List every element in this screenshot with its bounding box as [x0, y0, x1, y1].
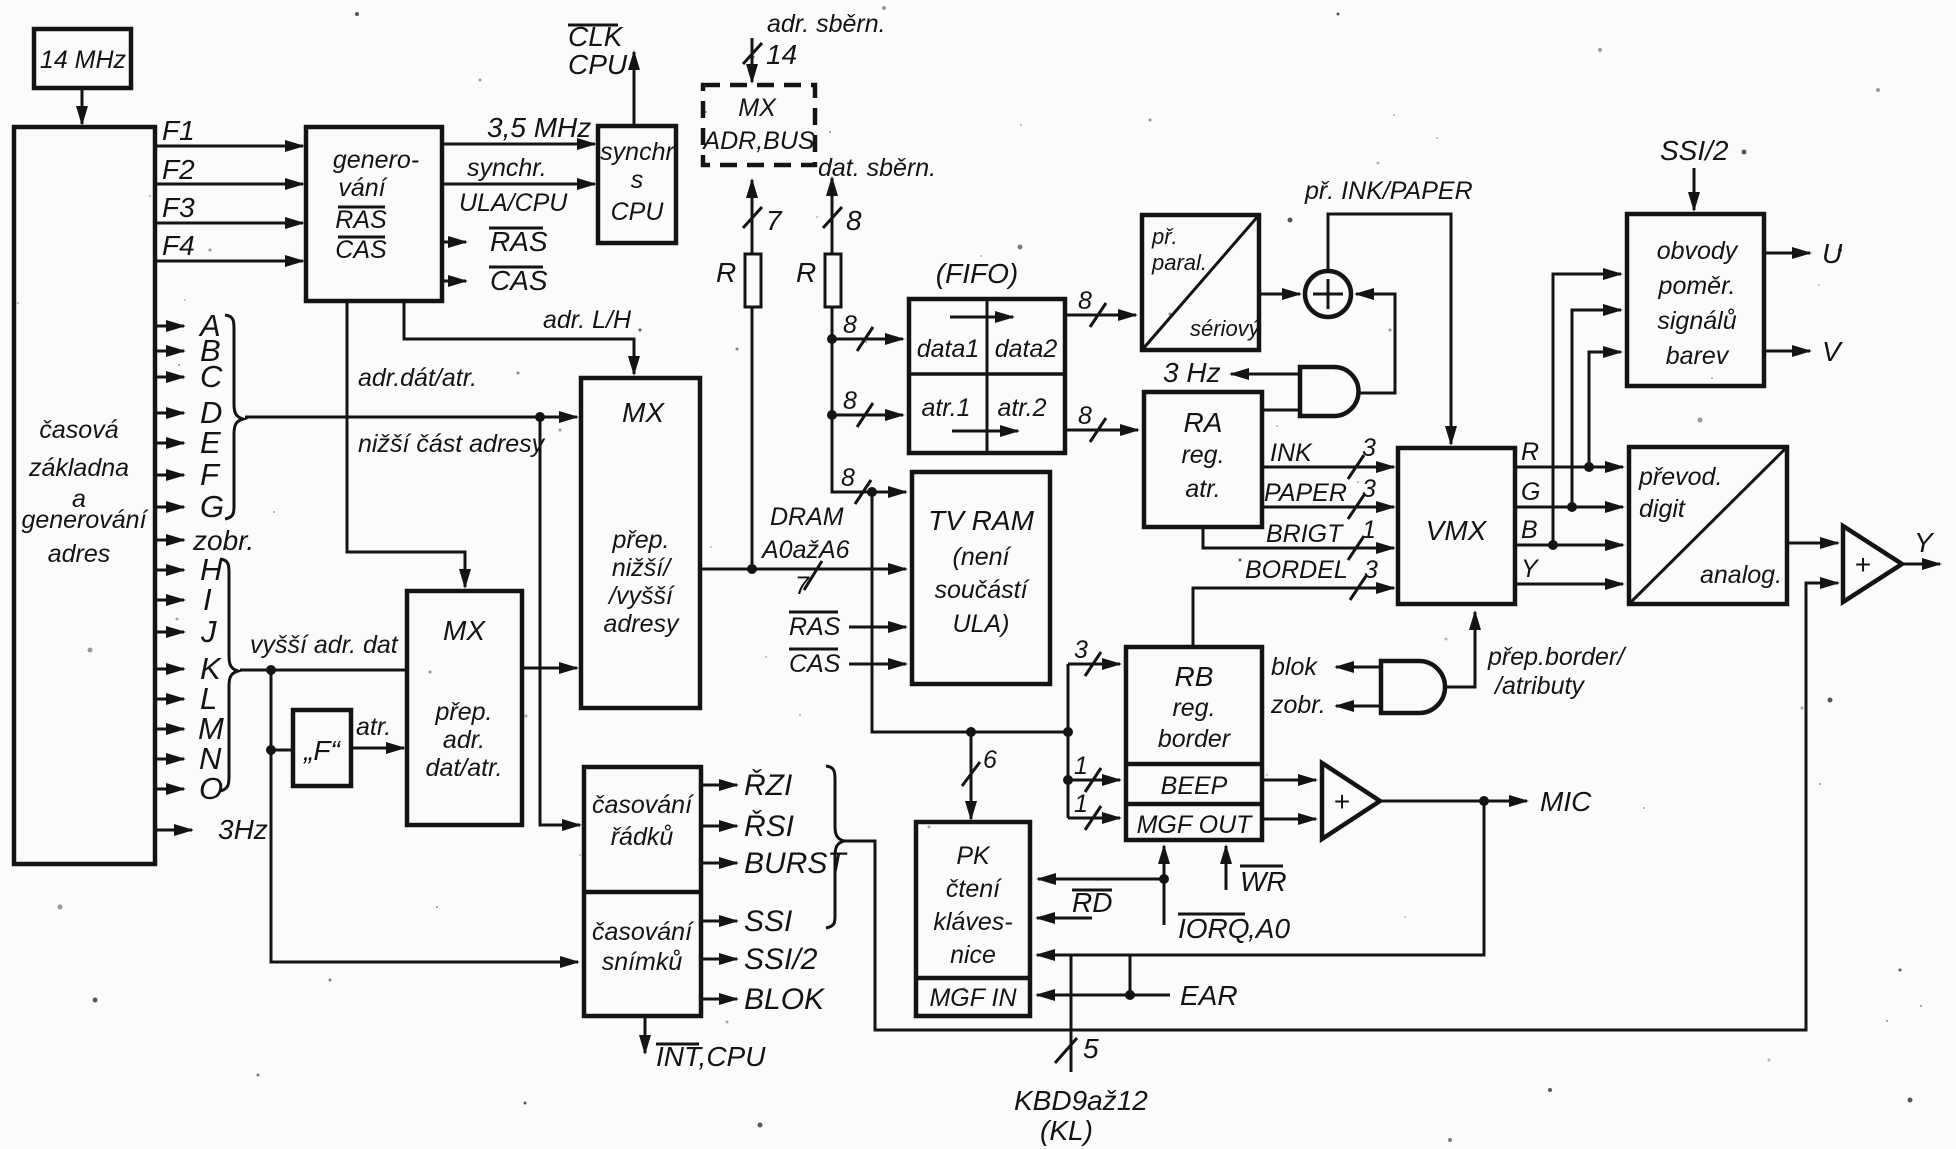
svg-text:3 Hz: 3 Hz — [1163, 357, 1221, 388]
gate G2 border/zobr — [1381, 661, 1445, 713]
svg-text:synchr.: synchr. — [467, 154, 547, 182]
svg-text:MIC: MIC — [1540, 786, 1592, 817]
block U10 TV RAM — [912, 472, 1050, 684]
svg-text:14: 14 — [766, 39, 797, 70]
wire CLK CPU — [568, 21, 634, 126]
output V — [1764, 336, 1843, 367]
wire INT CPU — [645, 1016, 766, 1072]
svg-text:adr.: adr. — [443, 726, 485, 754]
svg-text:O: O — [199, 771, 223, 806]
node dat branch data1 — [827, 334, 837, 344]
block U7 casovani radku / snimku — [584, 767, 701, 1016]
svg-text:3: 3 — [1364, 556, 1378, 584]
svg-text:přep.border/: přep.border/ — [1487, 643, 1627, 671]
wire gate to VMX prep border/atributy — [1445, 612, 1627, 700]
svg-text:G: G — [200, 489, 224, 524]
svg-text:poměr.: poměr. — [1658, 272, 1736, 300]
svg-text:MX: MX — [443, 615, 486, 646]
wire Y to prevod — [1515, 555, 1623, 584]
svg-text:CAS: CAS — [789, 650, 841, 678]
svg-text:RB: RB — [1175, 661, 1214, 692]
svg-text:F3: F3 — [162, 192, 195, 223]
svg-text:BURST: BURST — [744, 847, 848, 880]
svg-text:CAS: CAS — [490, 265, 548, 296]
output RSI — [701, 810, 794, 843]
input RAS to TV RAM — [789, 612, 906, 641]
svg-text:data2: data2 — [995, 335, 1058, 363]
svg-text:MGF OUT: MGF OUT — [1137, 811, 1254, 839]
node D-line junction — [535, 412, 545, 422]
svg-text:I: I — [203, 582, 212, 617]
svg-text:WR: WR — [1240, 866, 1287, 897]
svg-text:G: G — [1521, 478, 1540, 506]
svg-text:PK: PK — [956, 842, 991, 870]
svg-text:F2: F2 — [162, 154, 195, 185]
svg-text:E: E — [200, 425, 221, 460]
svg-text:(KL): (KL) — [1040, 1115, 1093, 1146]
output MIC — [1380, 786, 1592, 817]
svg-text:řádků: řádků — [611, 823, 674, 851]
wire D address low to MX — [245, 416, 577, 419]
input SSI/2 — [1660, 135, 1729, 210]
svg-text:INT,CPU: INT,CPU — [656, 1041, 766, 1072]
svg-text:RD: RD — [1072, 887, 1112, 918]
wire F box atr. output — [351, 713, 404, 748]
svg-text:3: 3 — [1074, 636, 1088, 664]
block U15 obvody pomer signalu barev — [1627, 214, 1764, 386]
svg-text:RAS: RAS — [789, 613, 841, 641]
svg-text:(FIFO): (FIFO) — [936, 258, 1018, 289]
svg-text:6: 6 — [983, 746, 997, 774]
brace sync outputs — [826, 766, 844, 928]
svg-text:analog.: analog. — [1700, 561, 1782, 589]
output Y — [1902, 527, 1940, 564]
resistor R adr — [716, 254, 761, 307]
label dat.sbern. — [818, 154, 936, 182]
svg-text:INK: INK — [1270, 439, 1313, 467]
wire 8 to FIFO atr1 — [832, 387, 903, 427]
svg-text:přep.: přep. — [612, 526, 670, 554]
wire 14-bit into MX ADR.BUS — [743, 38, 797, 82]
svg-text:ADR,BUS: ADR,BUS — [701, 127, 814, 155]
svg-text:časování: časování — [592, 918, 694, 946]
svg-text:čtení: čtení — [946, 875, 1002, 903]
svg-text:digit: digit — [1639, 495, 1686, 523]
wire 1 into MGF OUT — [1068, 790, 1120, 830]
svg-text:DRAM: DRAM — [770, 503, 844, 531]
svg-text:3: 3 — [1362, 434, 1376, 462]
svg-text:základna: základna — [28, 454, 129, 482]
wire IORQ A0 — [1038, 846, 1290, 944]
svg-text:8: 8 — [1078, 287, 1092, 315]
wire adr.dat/atr vertical from generovani to MX dat/atr — [347, 301, 465, 587]
svg-text:vání: vání — [338, 174, 387, 202]
svg-text:BLOK: BLOK — [744, 983, 826, 1016]
svg-text:součástí: součástí — [934, 576, 1029, 604]
wire 6 to PK — [962, 732, 997, 819]
svg-text:7: 7 — [795, 572, 810, 600]
output RAS — [442, 226, 548, 257]
brace A-G — [225, 315, 243, 519]
svg-text:s: s — [631, 166, 644, 194]
wire D node down to casovani radku — [540, 417, 580, 825]
wire vyssi adr dat (K line) — [240, 631, 407, 670]
svg-text:synchr: synchr — [600, 138, 675, 166]
node IORQ junction — [1159, 874, 1169, 884]
svg-text:8: 8 — [1078, 402, 1092, 430]
svg-text:J: J — [200, 614, 217, 649]
node RB riser junction — [1063, 727, 1073, 737]
wire MX dat/atr to MX nizsi — [522, 667, 577, 670]
svg-text:genero-: genero- — [333, 146, 419, 174]
wire prevod to Y amp — [1787, 542, 1838, 545]
wire G riser to obvody — [1572, 310, 1621, 507]
svg-text:8: 8 — [846, 205, 862, 236]
block U4 MX prep nizsi/vyssi adresy — [581, 378, 700, 708]
outputs A-O zobr 3Hz of timebase — [155, 308, 254, 806]
wire F1 — [155, 115, 303, 146]
wire B riser to obvody — [1553, 274, 1621, 545]
wire MIC tap down to PK input — [1037, 801, 1484, 955]
node G riser — [1567, 502, 1577, 512]
output SSI — [701, 905, 792, 938]
svg-text:adres: adres — [48, 540, 111, 568]
svg-text:RA: RA — [1184, 407, 1223, 438]
wire R riser to obvody — [1589, 352, 1621, 467]
svg-text:ULA): ULA) — [953, 610, 1010, 638]
oscillator 14 MHz — [34, 29, 131, 88]
block U2 generovani RAS CAS — [306, 127, 442, 301]
wire RD stub — [1037, 887, 1112, 918]
svg-text:A0ažA6: A0ažA6 — [760, 536, 850, 564]
svg-text:BORDEL: BORDEL — [1245, 556, 1348, 584]
svg-text:BEEP: BEEP — [1161, 772, 1228, 800]
svg-text:CPU: CPU — [568, 49, 628, 80]
svg-text:BRIGT: BRIGT — [1266, 520, 1344, 548]
svg-text:VMX: VMX — [1426, 515, 1488, 546]
svg-text:F1: F1 — [162, 115, 195, 146]
svg-text:obvody: obvody — [1657, 237, 1739, 265]
svg-text:kláves-: kláves- — [933, 908, 1012, 936]
wire KBD 5 — [1014, 955, 1148, 1146]
wire adr bus up-arrow with slash 7 — [743, 180, 783, 254]
svg-text:ŘZI: ŘZI — [744, 769, 792, 802]
label adr.sbern. — [767, 10, 886, 38]
svg-text:R: R — [796, 257, 816, 288]
svg-text:+: + — [1334, 786, 1350, 817]
wire EAR to MGF IN — [1037, 980, 1238, 1011]
node dat branch atr1 — [827, 410, 837, 420]
label adr.dat/atr. — [358, 364, 477, 392]
wire INK 3 — [1262, 434, 1394, 479]
svg-text:nižší/: nižší/ — [612, 554, 673, 582]
node B riser — [1548, 540, 1558, 550]
svg-text:CPU: CPU — [611, 198, 665, 226]
svg-text:KBD9až12: KBD9až12 — [1014, 1085, 1148, 1116]
input CAS to TV RAM — [789, 649, 906, 678]
wire 1 into BEEP — [1068, 752, 1120, 792]
wire B to prevod — [1515, 516, 1623, 545]
svg-text:adr. L/H: adr. L/H — [543, 306, 632, 334]
svg-text:(není: (není — [953, 543, 1012, 571]
svg-text:EAR: EAR — [1180, 980, 1238, 1011]
svg-text:1: 1 — [1362, 516, 1376, 544]
svg-text:časová: časová — [39, 416, 118, 444]
svg-text:dat. sběrn.: dat. sběrn. — [818, 154, 936, 182]
block U16 prevod digit analog — [1629, 447, 1787, 604]
svg-text:dat/atr.: dat/atr. — [426, 754, 503, 782]
block U8 MX ADR,BUS (dashed) — [701, 85, 815, 165]
wire adr bus vertical to DRAM node — [751, 307, 754, 569]
wire RB riser — [1067, 664, 1070, 818]
node BEEP tap — [1063, 775, 1073, 785]
svg-text:,A0: ,A0 — [1248, 913, 1290, 944]
block U3 synchr s CPU — [598, 126, 676, 243]
output BURST — [701, 847, 848, 880]
svg-text:ŘSI: ŘSI — [744, 810, 794, 843]
svg-text:MX: MX — [622, 397, 665, 428]
svg-text:1: 1 — [1074, 790, 1088, 818]
svg-text:RAS: RAS — [490, 226, 548, 257]
block U12 RA reg atr — [1144, 392, 1262, 527]
node 6-line tap — [966, 727, 976, 737]
svg-text:/vyšší: /vyšší — [607, 582, 675, 610]
wire 3 into RB — [1068, 636, 1120, 676]
svg-text:3,5 MHz: 3,5 MHz — [487, 112, 591, 143]
wire adr.L/H from generovani to MX top — [404, 301, 634, 374]
svg-text:adresy: adresy — [603, 610, 680, 638]
node EAR junction — [1125, 990, 1135, 1000]
svg-text:SSI: SSI — [744, 905, 792, 938]
svg-text:RAS: RAS — [335, 206, 387, 234]
block U9 FIFO — [909, 258, 1065, 453]
svg-text:/atributy: /atributy — [1493, 672, 1585, 700]
svg-text:C: C — [200, 359, 223, 394]
block U6 MX prep adr dat/atr — [407, 591, 522, 825]
svg-text:8: 8 — [841, 464, 855, 492]
wire address/data tap down and across — [872, 492, 1068, 732]
wire blok input — [1271, 653, 1381, 681]
node MIC tap — [1479, 796, 1489, 806]
svg-text:blok: blok — [1271, 653, 1318, 681]
svg-text:border: border — [1158, 725, 1232, 753]
node DRAM junction — [747, 564, 757, 574]
wire BEEP to amp — [1262, 779, 1316, 782]
wire zobr input — [1270, 691, 1381, 719]
resistor R dat — [796, 254, 841, 307]
svg-text:paral.: paral. — [1151, 250, 1207, 275]
wire FIFO to RA 8 — [1065, 402, 1138, 442]
wire RA to AND — [1262, 409, 1300, 412]
svg-text:reg.: reg. — [1181, 441, 1224, 469]
wire WR stub — [1226, 846, 1287, 897]
wire R to prevod — [1515, 438, 1623, 467]
svg-text:5: 5 — [1083, 1033, 1099, 1064]
node R riser — [1584, 462, 1594, 472]
svg-text:signálů: signálů — [1657, 307, 1736, 335]
wire paral to sum — [1259, 293, 1300, 296]
output BLOK — [701, 983, 826, 1016]
wire PAPER 3 — [1262, 475, 1394, 519]
svg-text:8: 8 — [843, 387, 857, 415]
svg-text:F4: F4 — [162, 230, 195, 261]
output SSI/2 — [701, 943, 818, 976]
svg-text:MX: MX — [738, 94, 777, 122]
output 3 Hz — [155, 814, 268, 845]
svg-text:SSI/2: SSI/2 — [1660, 135, 1729, 166]
svg-text:adr. sběrn.: adr. sběrn. — [767, 10, 886, 38]
node F-box tap — [266, 745, 276, 755]
svg-text:snímků: snímků — [602, 948, 683, 976]
svg-text:časování: časování — [592, 791, 694, 819]
svg-text:atr.: atr. — [1185, 475, 1220, 503]
wire 3Hz output of AND — [1163, 357, 1299, 388]
svg-text:zobr.: zobr. — [1270, 691, 1326, 719]
svg-text:+: + — [1855, 549, 1871, 580]
svg-text:U: U — [1822, 238, 1843, 269]
wire F2 — [155, 154, 303, 185]
svg-text:př.: př. — [1151, 224, 1178, 249]
gate G1 AND flash — [1300, 367, 1359, 416]
wire F3 — [155, 192, 303, 223]
node TV RAM branch junction — [867, 487, 877, 497]
svg-text:ULA/CPU: ULA/CPU — [459, 189, 568, 217]
block U13 RB reg border / BEEP / MGF OUT — [1126, 647, 1262, 840]
svg-text:data1: data1 — [917, 335, 980, 363]
svg-text:Y: Y — [1914, 527, 1935, 558]
wire BRIGT 1 — [1203, 516, 1394, 560]
svg-text:R: R — [1521, 438, 1539, 466]
svg-text:přep.: přep. — [435, 698, 493, 726]
wire BORDEL 3 — [1193, 556, 1394, 645]
wire 8 to FIFO data1 — [832, 311, 903, 351]
slash 8 on TV RAM branch — [841, 464, 871, 504]
summing node S1 — [1305, 271, 1351, 317]
wire FIFO to pr.paral 8 — [1065, 287, 1136, 327]
svg-text:8: 8 — [843, 311, 857, 339]
wire K node down to F box and casovani snimku — [271, 670, 578, 962]
svg-text:reg.: reg. — [1172, 694, 1215, 722]
block U1 casova zakladna a generovani adres — [14, 127, 155, 864]
svg-text:převod.: převod. — [1638, 463, 1722, 491]
wire 3,5 MHz — [442, 112, 595, 144]
block U5 "F" — [293, 710, 351, 786]
svg-text:vyšší adr. dat: vyšší adr. dat — [250, 631, 399, 659]
wire synchr ULA/CPU — [442, 154, 595, 217]
node K-line junction — [266, 665, 276, 675]
wire EAR riser — [1129, 955, 1132, 995]
output CAS — [442, 265, 548, 296]
svg-text:V: V — [1822, 336, 1843, 367]
block U11 prevodnik paralel/seriovy — [1142, 215, 1262, 350]
svg-text:př. INK/PAPER: př. INK/PAPER — [1304, 177, 1473, 205]
svg-text:1: 1 — [1074, 752, 1088, 780]
svg-text:SSI/2: SSI/2 — [744, 943, 818, 976]
amp A2 MIC summing — [1322, 763, 1380, 839]
svg-text:atr.1: atr.1 — [921, 394, 970, 422]
svg-text:atr.: atr. — [356, 713, 391, 741]
svg-text:14 MHz: 14 MHz — [40, 46, 127, 74]
svg-text:R: R — [716, 257, 736, 288]
svg-text:generování: generování — [21, 506, 148, 534]
svg-text:PAPER: PAPER — [1264, 479, 1347, 507]
block U17 PK cteni klavesnice / MGF IN — [916, 822, 1030, 1016]
svg-text:adr.dát/atr.: adr.dát/atr. — [358, 364, 477, 392]
wire dat bus up-arrow with slash 8 — [823, 178, 862, 254]
block U14 VMX — [1398, 448, 1515, 604]
wire G to prevod — [1515, 478, 1623, 507]
wire 14MHz to timebase — [81, 88, 84, 124]
svg-text:barev: barev — [1666, 342, 1730, 370]
svg-text:3: 3 — [1362, 475, 1376, 503]
wire pr INK/PAPER sum to VMX — [1304, 177, 1473, 444]
wire AND to sum — [1356, 294, 1395, 393]
svg-text:7: 7 — [766, 205, 783, 236]
svg-text:B: B — [1521, 516, 1538, 544]
svg-text:MGF IN: MGF IN — [929, 984, 1017, 1012]
amp A1 Y summing — [1843, 526, 1902, 602]
svg-text:nice: nice — [950, 941, 996, 969]
wire MX out DRAM A0-A6 to TV RAM — [700, 503, 906, 600]
svg-text:F: F — [200, 457, 221, 492]
svg-text:CAS: CAS — [335, 236, 387, 264]
wire sync feedback to Y amp — [844, 583, 1838, 1030]
svg-text:atr.2: atr.2 — [997, 394, 1046, 422]
wire into F box — [271, 749, 293, 752]
output U — [1764, 238, 1843, 269]
label nizsi cast adresy — [358, 430, 546, 458]
output RZI — [701, 769, 792, 802]
svg-text:Y: Y — [1521, 555, 1540, 583]
wire F4 — [155, 230, 303, 261]
wire MGF OUT to amp — [1262, 818, 1316, 821]
wire dat bus vertical with branches — [832, 307, 906, 492]
svg-text:sériový: sériový — [1190, 316, 1262, 341]
svg-text:nižší část adresy: nižší část adresy — [358, 430, 546, 458]
brace H-O — [220, 559, 238, 791]
svg-text:„F“: „F“ — [303, 735, 341, 766]
svg-text:TV RAM: TV RAM — [928, 505, 1034, 536]
svg-text:IORQ: IORQ — [1178, 913, 1250, 944]
svg-text:3Hz: 3Hz — [218, 814, 268, 845]
